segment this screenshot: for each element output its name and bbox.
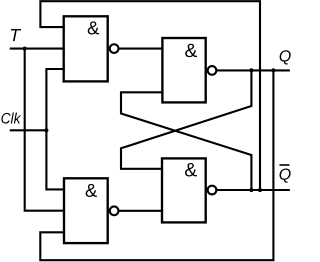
nand gate U2 output bubble xyxy=(208,66,217,75)
label & of U2 xyxy=(185,44,197,57)
wire T branch down to gate U3 input 2 xyxy=(25,49,64,211)
nand gate U4 body xyxy=(162,158,206,222)
nand gate U3 output bubble xyxy=(110,206,119,215)
nand gate U2 body xyxy=(162,38,205,102)
junction dot on Clk line xyxy=(44,128,48,132)
overline of Qbar xyxy=(280,164,290,166)
wire Clk branch up to gate U1 input 3 and down to gate U3 input 1 xyxy=(46,69,64,189)
wire U4 output to node Qbar xyxy=(217,189,288,191)
wire T input to gate U1 input 2 xyxy=(11,48,64,50)
nand gate U3 body xyxy=(64,178,108,243)
wire bottom feedback from node Q down around the bottom to gate U3 input 3 xyxy=(40,70,273,260)
label Qbar xyxy=(280,169,291,183)
label & of U4 xyxy=(185,163,197,176)
label Clk xyxy=(1,113,21,124)
label Q xyxy=(280,50,291,64)
label & of U3 xyxy=(86,184,97,197)
wire U2 output to node Q xyxy=(217,69,288,71)
junction dot Q line left xyxy=(249,68,253,72)
junction dot Qbar line right xyxy=(258,188,262,192)
wire U1 output to U2 input 1 xyxy=(119,48,162,50)
wire cross-coupling from node Q diagonally down to U4 input 1 xyxy=(121,70,251,168)
nand gate U4 output bubble xyxy=(208,186,217,195)
nand gate U1 output bubble xyxy=(110,44,119,53)
junction dot on T line xyxy=(23,47,27,51)
wire U3 output to U4 input 2 xyxy=(119,210,162,212)
label & of U1 xyxy=(88,21,99,34)
junction dot Qbar line left xyxy=(249,188,253,192)
wire top feedback from Qbar line over the top to gate U1 input 1 xyxy=(40,1,260,190)
nand gate U1 body xyxy=(64,16,108,81)
wire Clk input stub xyxy=(11,129,47,131)
wire cross-coupling from U2 input 2 diagonally down to node Qbar xyxy=(121,92,251,190)
junction dot Q line right xyxy=(271,68,275,72)
label T xyxy=(11,29,21,41)
